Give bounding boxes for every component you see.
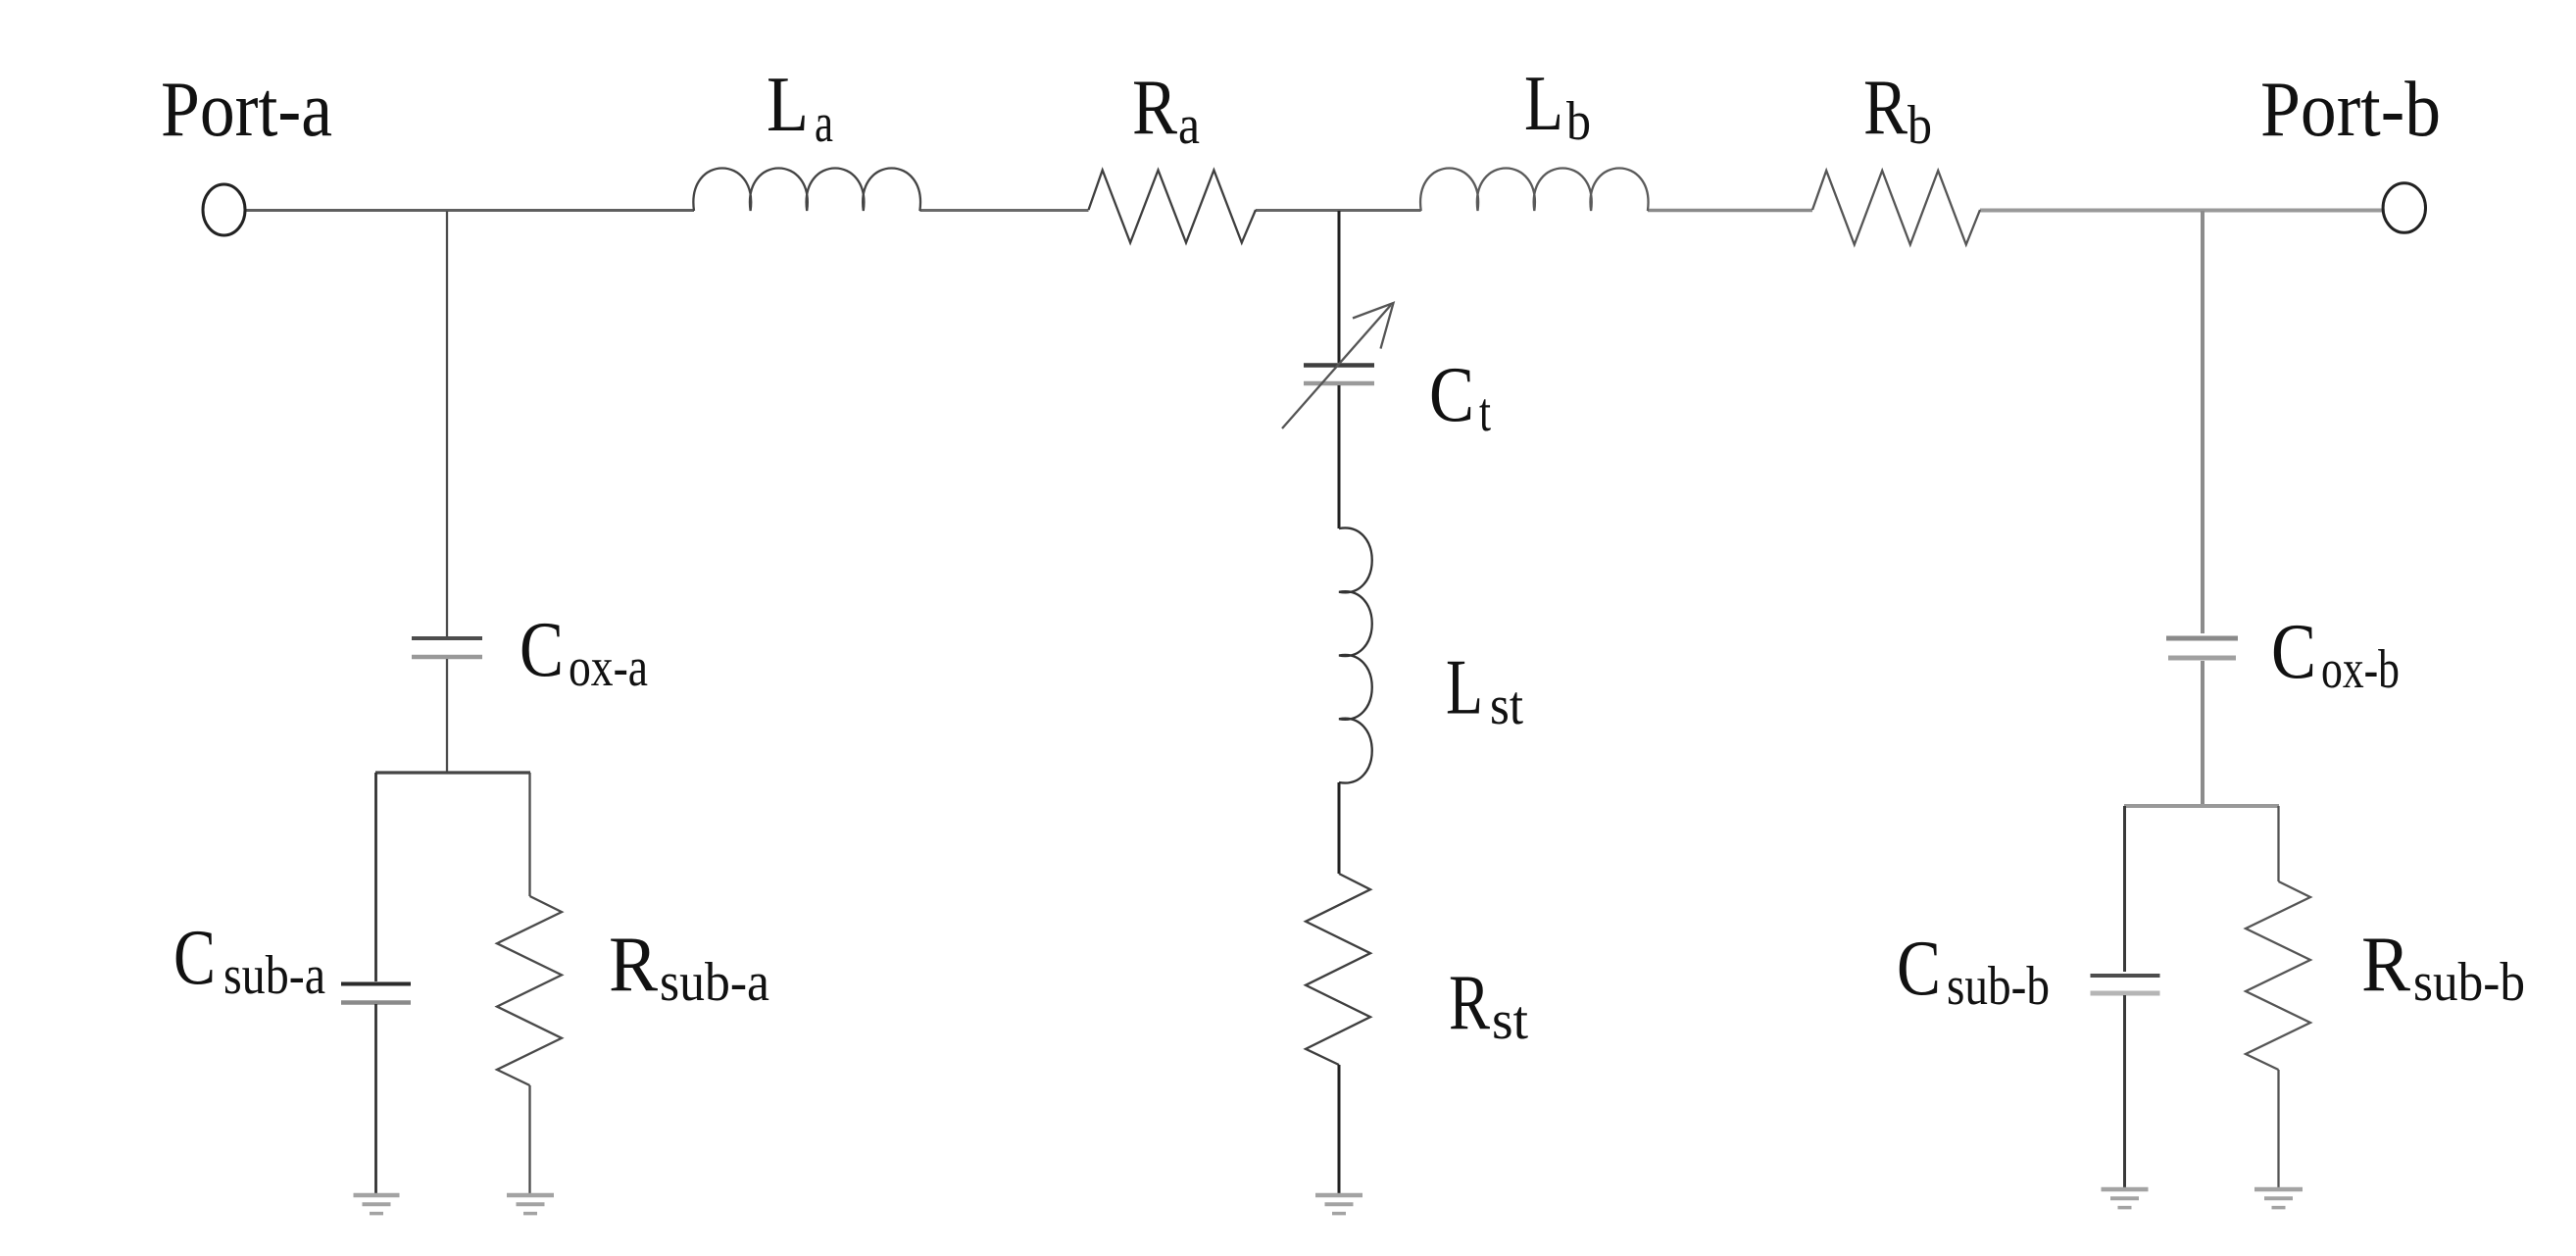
svg-text:L: L (767, 62, 809, 148)
svg-text:a: a (1178, 95, 1200, 156)
svg-text:L: L (1524, 61, 1563, 147)
svg-text:t: t (1479, 382, 1491, 443)
svg-text:st: st (1492, 990, 1528, 1051)
svg-text:R: R (1132, 65, 1178, 151)
svg-text:C: C (173, 915, 216, 1001)
svg-text:sub-b: sub-b (1947, 956, 2050, 1017)
svg-text:b: b (1907, 95, 1932, 156)
svg-text:L: L (1446, 645, 1483, 731)
svg-text:C: C (1897, 926, 1941, 1012)
svg-text:R: R (609, 922, 659, 1008)
svg-text:Port-b: Port-b (2260, 67, 2441, 153)
svg-text:sub-a: sub-a (660, 952, 769, 1013)
svg-text:C: C (520, 607, 564, 693)
svg-text:ox-b: ox-b (2321, 639, 2400, 700)
svg-text:sub-a: sub-a (223, 945, 325, 1006)
svg-text:ox-a: ox-a (569, 637, 648, 698)
svg-text:a: a (815, 93, 833, 154)
svg-text:R: R (1863, 65, 1908, 151)
svg-text:C: C (1429, 352, 1474, 438)
svg-text:R: R (1449, 960, 1491, 1046)
svg-text:st: st (1490, 676, 1523, 736)
svg-text:C: C (2271, 609, 2316, 695)
svg-text:R: R (2361, 922, 2411, 1008)
svg-text:Port-a: Port-a (161, 67, 332, 153)
svg-text:sub-b: sub-b (2413, 952, 2525, 1013)
svg-text:b: b (1566, 91, 1591, 152)
